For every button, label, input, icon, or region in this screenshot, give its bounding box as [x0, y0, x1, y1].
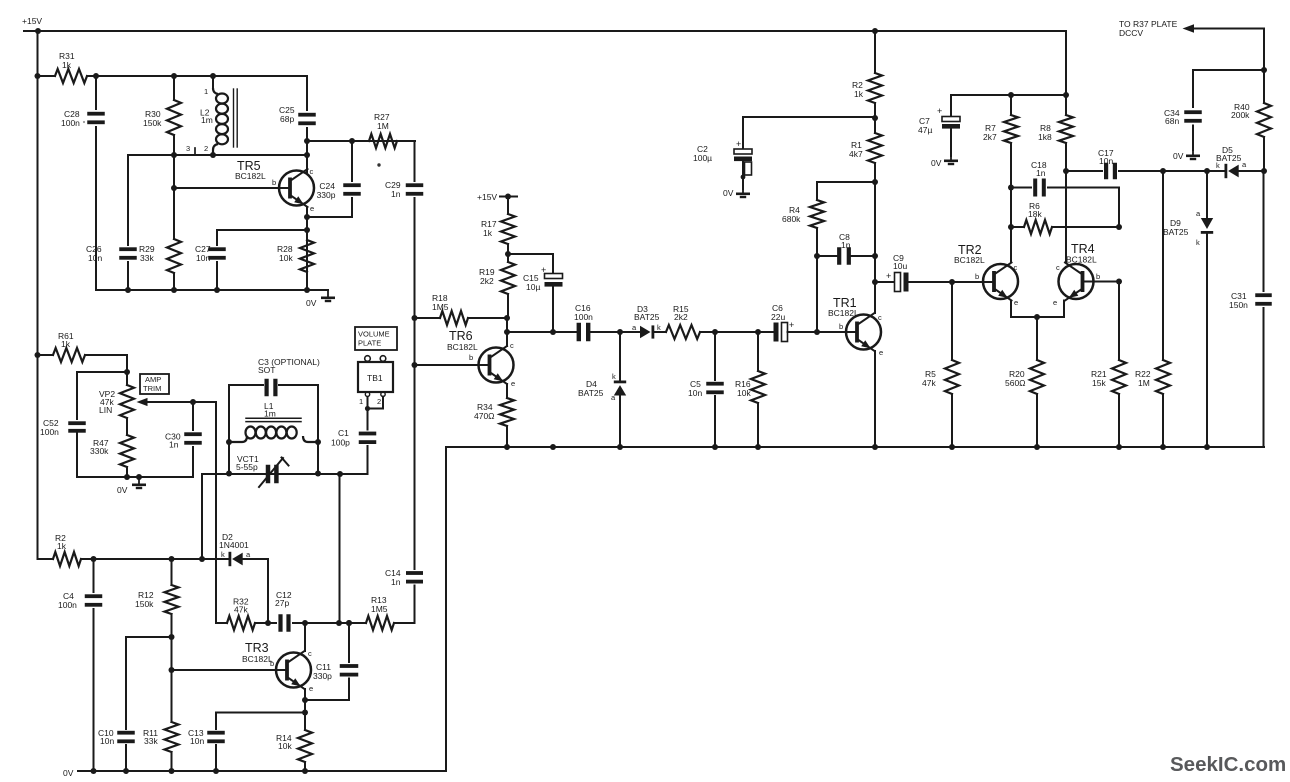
svg-text:1k: 1k	[62, 60, 72, 70]
wire wiper to R32 drop	[215, 402, 217, 623]
svg-text:100µ: 100µ	[693, 153, 712, 163]
wire R4 bottom to TR1 base node	[816, 256, 818, 332]
svg-text:68n: 68n	[1165, 116, 1179, 126]
svg-text:e: e	[1053, 298, 1057, 307]
wire C24 to TR5 emitter	[307, 216, 352, 218]
svg-text:BC182L: BC182L	[447, 342, 478, 352]
svg-text:c: c	[310, 167, 314, 176]
wire TR4 base	[1084, 279, 1122, 285]
svg-text:10n: 10n	[688, 388, 702, 398]
svg-text:DCCV: DCCV	[1119, 28, 1143, 38]
wire C9 to TR2 base	[909, 279, 995, 285]
svg-text:+: +	[789, 320, 794, 330]
svg-text:e: e	[310, 204, 314, 213]
transistor TR3	[242, 641, 313, 693]
svg-text:BAT25: BAT25	[634, 312, 660, 322]
label VOLUME PLATE box	[355, 327, 397, 350]
capacitor C14	[385, 318, 423, 623]
svg-text:b: b	[1096, 272, 1100, 281]
svg-text:LIN: LIN	[99, 405, 112, 415]
svg-text:560Ω: 560Ω	[1005, 378, 1026, 388]
ground 0V under VP2	[117, 477, 146, 495]
wire TR3 emitter column	[302, 689, 308, 730]
TB1 pin 1 label	[359, 397, 363, 406]
capacitor C18	[1011, 160, 1119, 197]
capacitor C5	[688, 332, 724, 447]
capacitor C2 electrolytic	[693, 117, 875, 189]
transistor TR5	[235, 159, 314, 213]
svg-text:10n: 10n	[100, 736, 114, 746]
svg-text:1M5: 1M5	[371, 604, 388, 614]
resistor R17	[481, 197, 515, 245]
svg-text:k: k	[657, 323, 661, 332]
svg-text:330p: 330p	[317, 190, 336, 200]
svg-text:10n: 10n	[1099, 156, 1113, 166]
svg-text:BC182L: BC182L	[1066, 255, 1097, 265]
svg-text:1k: 1k	[854, 89, 864, 99]
node 0V bottom label	[63, 768, 74, 778]
svg-text:680k: 680k	[782, 214, 801, 224]
svg-text:0V: 0V	[63, 768, 74, 778]
capacitor C7 electrolytic	[918, 95, 960, 156]
wire C12 to R13 row	[302, 620, 366, 626]
resistor R4	[782, 182, 824, 256]
resistor R8	[1038, 115, 1073, 262]
svg-text:47k: 47k	[234, 605, 248, 615]
svg-text:1M: 1M	[377, 121, 389, 131]
L2 pin 2 label	[204, 144, 208, 153]
wire C24 top row	[307, 138, 415, 144]
svg-text:4k7: 4k7	[849, 149, 863, 159]
capacitor C11	[313, 623, 358, 700]
connector TB1	[358, 356, 393, 397]
svg-text:1: 1	[359, 397, 363, 406]
svg-text:1k: 1k	[61, 339, 71, 349]
resistor R22	[1135, 168, 1170, 447]
svg-text:27p: 27p	[275, 598, 289, 608]
wire +15V left rail	[35, 31, 41, 559]
inductor L1	[229, 401, 318, 442]
svg-text:150k: 150k	[143, 118, 162, 128]
svg-text:BAT25: BAT25	[1163, 227, 1189, 237]
svg-text:b: b	[839, 322, 843, 331]
wire TR3 collector	[304, 623, 306, 651]
svg-text:b: b	[975, 272, 979, 281]
resistor R7	[983, 95, 1018, 262]
svg-text:k: k	[1196, 238, 1200, 247]
svg-text:c: c	[308, 649, 312, 658]
svg-text:33k: 33k	[140, 253, 154, 263]
svg-text:k: k	[612, 372, 616, 381]
wire R2 row	[38, 556, 229, 562]
capacitor C24	[317, 141, 361, 217]
wire TR1 emitter to 0V bus	[874, 351, 876, 447]
wire 0V bus under TR5	[96, 287, 328, 293]
svg-text:18k: 18k	[1028, 209, 1042, 219]
wire C6 to TR1 base	[788, 329, 858, 335]
svg-text:+: +	[541, 265, 546, 275]
capacitor C17	[1066, 148, 1163, 179]
ground 0V under C34	[1173, 148, 1200, 161]
wire D2 to R32 drop	[265, 559, 271, 626]
node +15V mid label	[477, 192, 517, 202]
wire VP2 wiper arrow	[137, 398, 217, 406]
svg-text:100n: 100n	[40, 427, 59, 437]
wire VCT1 row	[202, 471, 367, 477]
capacitor C13	[188, 713, 225, 772]
diode D2 1N4001	[219, 532, 268, 566]
wire +15V top rail	[24, 28, 1066, 34]
svg-text:1n: 1n	[1036, 168, 1046, 178]
capacitor C52	[40, 372, 86, 477]
diode D4 BAT25	[578, 332, 626, 447]
svg-text:c: c	[1014, 263, 1018, 272]
wire TR2 TR4 emitter bus	[1011, 301, 1064, 321]
svg-text:100p: 100p	[331, 438, 350, 448]
resistor R20	[1005, 317, 1044, 447]
wire R17-R19 junction	[505, 244, 553, 262]
wire C34 top row	[1193, 69, 1264, 71]
resistor R16	[735, 332, 765, 447]
svg-text:c: c	[510, 341, 514, 350]
svg-text:10µ: 10µ	[526, 282, 540, 292]
resistor R6	[1011, 201, 1119, 234]
ground 0V under TR5	[306, 290, 335, 308]
wire TR5 base	[171, 185, 290, 191]
wire R31 row to L2 and C25	[87, 73, 307, 79]
svg-text:33k: 33k	[144, 736, 158, 746]
svg-text:b: b	[270, 659, 274, 668]
wire arrow drop to R40	[1261, 29, 1267, 104]
svg-text:1: 1	[204, 87, 208, 96]
wire TB1 pins to C1	[365, 397, 383, 412]
capacitor C25	[279, 76, 316, 172]
svg-text:e: e	[511, 379, 515, 388]
wire L1 box right side	[315, 385, 321, 477]
svg-text:10u: 10u	[893, 261, 907, 271]
svg-text:15k: 15k	[1092, 378, 1106, 388]
svg-text:+15V: +15V	[477, 192, 497, 202]
wire VP2 box top	[77, 371, 127, 373]
wire 0V main bus	[447, 444, 1264, 450]
wire C17 to D5 row	[1163, 168, 1224, 174]
diode D3 BAT25	[632, 304, 661, 339]
wire TR5 emitter to C27	[217, 227, 310, 233]
svg-text:150n: 150n	[1229, 300, 1248, 310]
svg-text:+: +	[886, 271, 891, 281]
wire TR5 emitter column	[304, 207, 310, 290]
wire C18 to TR4 base column	[1116, 188, 1122, 231]
svg-text:330p: 330p	[313, 671, 332, 681]
svg-text:BC182L: BC182L	[242, 654, 273, 664]
svg-text:1k: 1k	[57, 541, 67, 551]
svg-text:10k: 10k	[279, 253, 293, 263]
svg-text:150k: 150k	[135, 599, 154, 609]
resistor R13	[366, 595, 415, 630]
svg-text:1m: 1m	[264, 409, 276, 419]
svg-text:TR6: TR6	[449, 329, 473, 343]
svg-text:1N4001: 1N4001	[219, 540, 249, 550]
resistor R1	[849, 103, 882, 313]
svg-text:0V: 0V	[117, 485, 128, 495]
svg-text:C1: C1	[338, 428, 349, 438]
svg-text:k: k	[1216, 161, 1220, 170]
capacitor C28	[61, 76, 105, 290]
svg-text:2: 2	[377, 397, 381, 406]
transistor TR4	[1053, 242, 1100, 307]
svg-text:TR3: TR3	[245, 641, 269, 655]
wire VP2 box bottom	[77, 474, 193, 480]
capacitor C1	[331, 397, 376, 474]
capacitor C3 optional	[258, 357, 320, 396]
resistor R28	[277, 240, 314, 272]
L2 pin 1 label	[204, 87, 208, 96]
capacitor C8	[814, 232, 875, 265]
wire TR6 collector node row	[504, 318, 578, 346]
wire TR3 emitter to C11	[305, 620, 352, 700]
SeekIC.com watermark	[1170, 753, 1286, 776]
svg-text:AMP: AMP	[145, 375, 161, 384]
svg-text:TB1: TB1	[367, 373, 383, 383]
svg-text:10k: 10k	[278, 741, 292, 751]
svg-text:1k8: 1k8	[1038, 132, 1052, 142]
svg-text:0V: 0V	[306, 298, 317, 308]
capacitor C30	[165, 402, 202, 477]
capacitor C26	[86, 155, 137, 290]
svg-text:10k: 10k	[737, 388, 751, 398]
wire top rail drop to R8	[1065, 31, 1067, 115]
svg-text:1n: 1n	[841, 240, 851, 250]
svg-text:200k: 200k	[1231, 110, 1250, 120]
wire C7 top row	[951, 92, 1069, 98]
svg-text:5-55p: 5-55p	[236, 462, 258, 472]
wire R61 corner to VP2	[124, 355, 130, 385]
resistor R30	[143, 76, 181, 188]
svg-text:1M5: 1M5	[432, 302, 449, 312]
transistor TR6	[447, 329, 515, 388]
svg-text:1n: 1n	[391, 189, 401, 199]
resistor R14	[276, 730, 312, 771]
capacitor C10	[98, 637, 135, 771]
capacitor C16	[574, 303, 593, 341]
resistor R40	[1231, 102, 1271, 171]
svg-text:1M: 1M	[1138, 378, 1150, 388]
resistor R47	[90, 418, 134, 477]
svg-text:TRIM: TRIM	[143, 384, 161, 393]
svg-text:c: c	[1056, 263, 1060, 272]
wire R18 row	[412, 315, 511, 321]
svg-text:470Ω: 470Ω	[474, 411, 495, 421]
resistor R31	[38, 51, 87, 83]
svg-text:+: +	[736, 139, 741, 149]
svg-text:100n: 100n	[61, 118, 80, 128]
capacitor C12	[268, 590, 305, 632]
svg-text:0V: 0V	[723, 188, 734, 198]
ground 0V under C2	[723, 186, 750, 198]
capacitor C27	[195, 230, 226, 290]
svg-text:c: c	[878, 313, 882, 322]
resistor R12	[135, 559, 179, 722]
svg-text:e: e	[1014, 298, 1018, 307]
wire L1 box top	[229, 384, 318, 386]
capacitor C9 electrolytic	[875, 253, 909, 292]
resistor R11	[143, 722, 179, 771]
potentiometer VP2	[99, 385, 134, 418]
wire 0V bottom bus	[78, 768, 446, 774]
resistor R5	[922, 282, 959, 447]
svg-text:47k: 47k	[922, 378, 936, 388]
L2 pin 3 label	[186, 144, 195, 155]
svg-text:2k2: 2k2	[480, 276, 494, 286]
svg-text:+15V: +15V	[22, 16, 42, 26]
svg-text:b: b	[469, 353, 473, 362]
resistor R15	[655, 304, 775, 339]
svg-text:22u: 22u	[771, 312, 785, 322]
svg-text:100n: 100n	[58, 600, 77, 610]
svg-text:BC182L: BC182L	[954, 255, 985, 265]
svg-text:2k2: 2k2	[674, 312, 688, 322]
svg-text:BC182L: BC182L	[235, 171, 266, 181]
svg-text:3: 3	[186, 144, 190, 153]
ground 0V under C7	[931, 153, 958, 168]
svg-text:e: e	[879, 348, 883, 357]
resistor R2 top	[852, 31, 882, 103]
svg-text:BC182L: BC182L	[828, 308, 859, 318]
resistor R32	[216, 597, 268, 631]
inductor L2	[200, 76, 237, 155]
wire L2 secondary row	[128, 152, 310, 158]
svg-text:1m: 1m	[201, 115, 213, 125]
svg-text:47µ: 47µ	[918, 125, 932, 135]
capacitor C34	[1164, 70, 1202, 150]
svg-text:BAT25: BAT25	[1216, 153, 1242, 163]
wire C16 to D3	[589, 329, 640, 335]
resistor R2	[53, 533, 81, 566]
svg-text:10n: 10n	[196, 253, 210, 263]
resistor R34	[474, 384, 514, 447]
wire VCT1 column to R13 row	[339, 474, 341, 623]
svg-text:SeekIC.com: SeekIC.com	[1170, 753, 1286, 776]
label AMP TRIM box	[140, 374, 169, 394]
resistor R21	[1091, 282, 1126, 448]
svg-text:1n: 1n	[169, 440, 179, 450]
resistor R29	[139, 188, 181, 290]
capacitor C29	[385, 141, 423, 318]
wire TO R37 PLATE arrow	[1119, 19, 1264, 38]
svg-text:PLATE: PLATE	[358, 339, 381, 348]
capacitor C6 electrolytic	[771, 303, 794, 342]
wire speckle artifacts	[83, 121, 381, 167]
resistor R18	[432, 293, 468, 325]
diode D5 BAT25	[1216, 145, 1267, 178]
wire R12 to C10	[126, 636, 172, 638]
resistor R27	[369, 112, 415, 148]
wire L1 box left side	[226, 385, 232, 477]
svg-text:10n: 10n	[88, 253, 102, 263]
TB1 pin 2 label	[377, 397, 381, 406]
svg-text:b: b	[272, 178, 276, 187]
capacitor C31	[1229, 171, 1272, 447]
svg-text:330k: 330k	[90, 446, 109, 456]
transistor TR1	[828, 296, 883, 357]
svg-text:10n: 10n	[190, 736, 204, 746]
capacitor C4	[58, 559, 102, 771]
wire C13 to TR3 emitter	[216, 710, 308, 716]
svg-text:SOT: SOT	[258, 365, 275, 375]
node +15V supply label	[22, 16, 42, 26]
svg-text:+: +	[937, 106, 942, 116]
wire TR3 base	[172, 669, 288, 671]
svg-text:2: 2	[204, 144, 208, 153]
wire R4 feed	[817, 181, 875, 183]
wire VCT1 to D2 drop	[201, 474, 203, 559]
wire TR6 base	[412, 362, 490, 368]
svg-text:BAT25: BAT25	[578, 388, 604, 398]
resistor R61	[38, 331, 128, 362]
variable capacitor VCT1	[236, 454, 289, 487]
svg-text:2k7: 2k7	[983, 132, 997, 142]
transistor TR2	[954, 243, 1018, 307]
svg-text:VOLUME: VOLUME	[358, 330, 390, 339]
svg-text:1n: 1n	[391, 577, 401, 587]
svg-text:68p: 68p	[280, 114, 294, 124]
svg-text:0V: 0V	[931, 158, 942, 168]
svg-text:e: e	[309, 684, 313, 693]
wire 0V bus left leg	[445, 447, 447, 771]
capacitor C15 electrolytic	[523, 254, 563, 332]
svg-text:1k: 1k	[483, 228, 493, 238]
svg-text:100n: 100n	[574, 312, 593, 322]
svg-text:k: k	[221, 550, 225, 559]
svg-text:0V: 0V	[1173, 151, 1184, 161]
resistor R19	[479, 262, 515, 318]
diode D9 BAT25	[1163, 171, 1213, 447]
